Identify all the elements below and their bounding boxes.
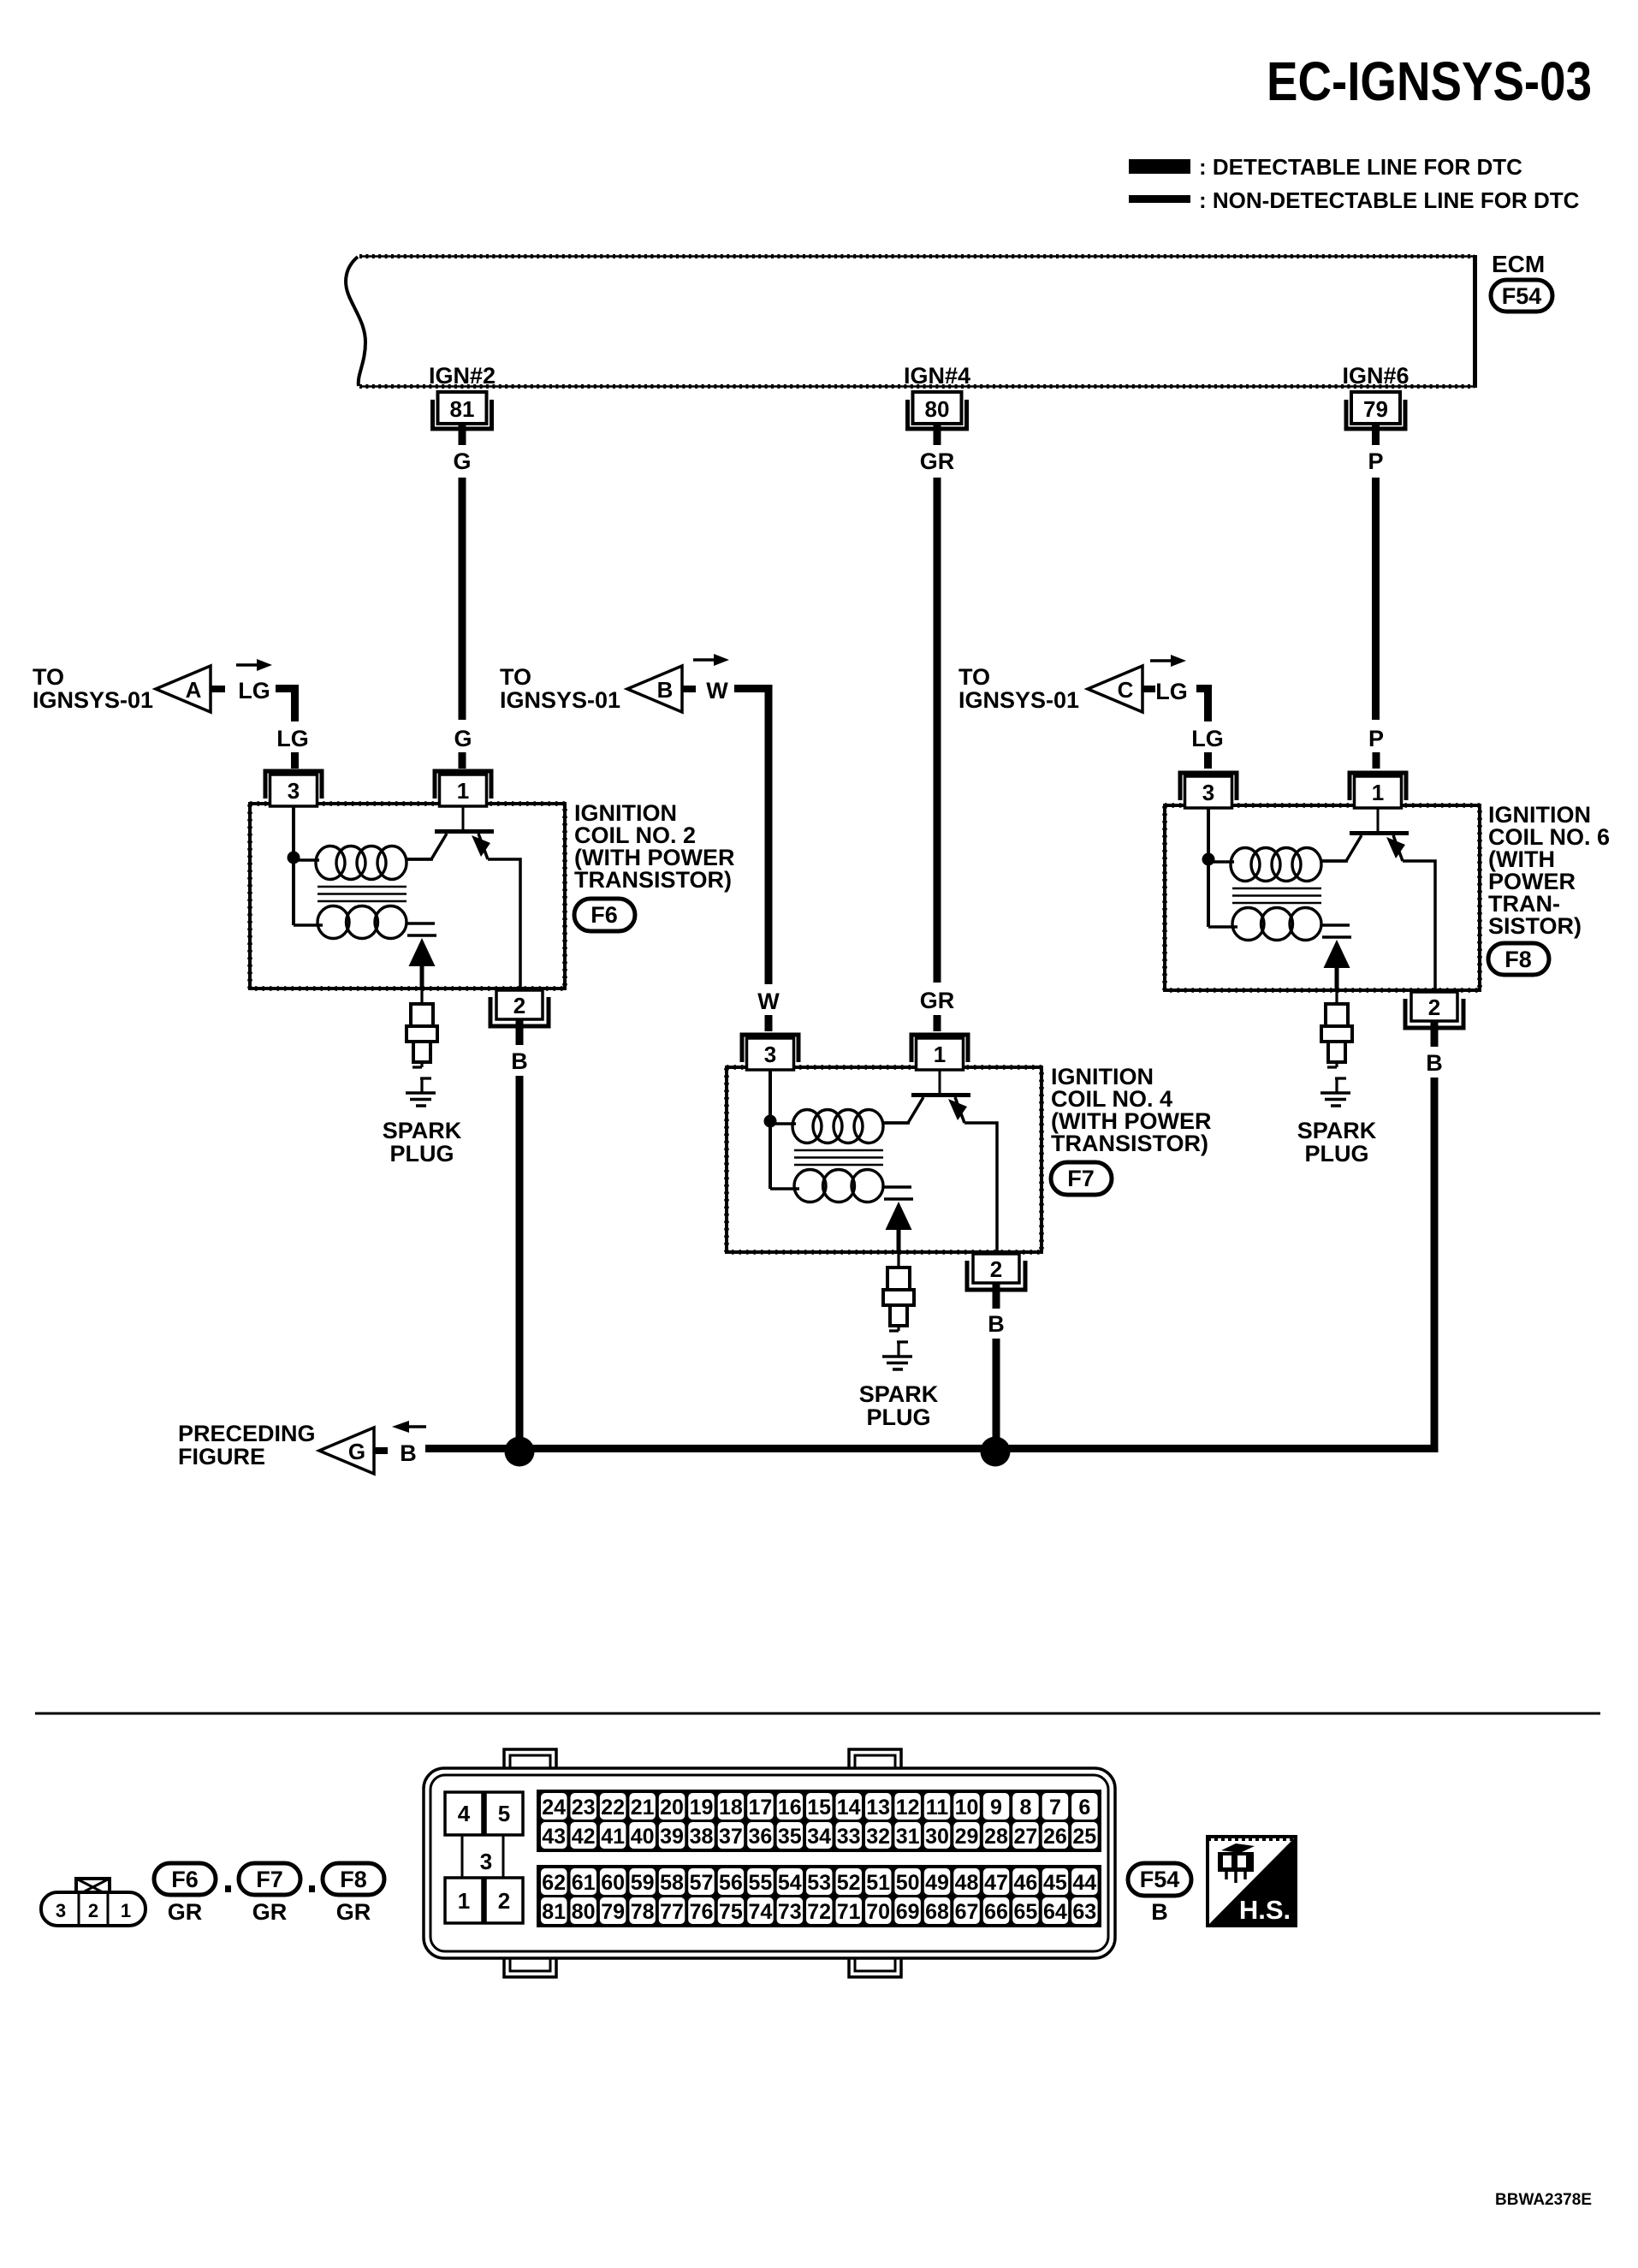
svg-text:F8: F8 [1504,947,1532,972]
svg-text:19: 19 [690,1796,714,1820]
svg-text:49: 49 [925,1871,949,1895]
svg-text:50: 50 [896,1871,920,1895]
wire GR from ECM pin 80 [920,448,955,1031]
svg-text:31: 31 [896,1825,920,1849]
svg-text:BBWA2378E: BBWA2378E [1495,2191,1592,2209]
svg-text:22: 22 [601,1796,625,1820]
coil 6 connector ref F8 [1488,943,1549,975]
svg-text:C: C [1118,677,1134,703]
coil 2 connector ref F6 [574,899,635,931]
ECM connector face outline [424,1749,1115,1977]
svg-text:2: 2 [88,1900,98,1921]
svg-text:58: 58 [660,1871,684,1895]
wire LG elbow to coil 6 pin 3 [1191,689,1224,769]
svg-text:21: 21 [631,1796,655,1820]
svg-text:17: 17 [748,1796,772,1820]
svg-text:B: B [657,677,674,703]
svg-text:LG: LG [276,726,309,751]
svg-text:57: 57 [690,1871,714,1895]
ECM connector pins 4,5,3,1,2 [445,1792,523,1923]
coil 4 connector ref F7 [1051,1162,1112,1195]
svg-text:F7: F7 [256,1867,283,1892]
svg-text:1: 1 [457,778,469,804]
svg-text:1: 1 [121,1900,131,1921]
svg-text:SPARK: SPARK [383,1118,462,1143]
coil 4 internal wire from pin 3 [764,1069,777,1189]
coil 6 internal wire from pin 3 [1202,807,1215,927]
title EC-IGNSYS-03 [1267,50,1592,112]
svg-text:71: 71 [837,1900,861,1924]
svg-text:GR: GR [252,1899,288,1925]
svg-text:13: 13 [866,1796,890,1820]
svg-text:PLUG: PLUG [1304,1141,1368,1167]
connector ref F54 (bottom) [1128,1863,1191,1925]
svg-text:47: 47 [984,1871,1008,1895]
wire B from coil 2 pin 2 [511,1048,528,1447]
svg-text:GR: GR [168,1899,203,1925]
svg-text:IGN#2: IGN#2 [429,363,496,389]
ground symbol for spark plug 2 [406,1093,436,1106]
svg-text:2: 2 [498,1888,510,1914]
ECM connector ref F54 [1491,280,1552,312]
coil 6 description label [1488,802,1610,939]
spark plug for coil 2 [407,989,437,1093]
coil 4 pin 2 terminal [967,1254,1025,1309]
coil 4 high-tension gap [883,1187,913,1254]
junction node under coil 2 [505,1437,535,1467]
svg-text:43: 43 [542,1825,566,1849]
svg-text:3: 3 [480,1849,492,1874]
coil 2 pin 2 terminal [490,990,549,1045]
ground symbol for spark plug 4 [882,1357,912,1369]
ignition coil no. 2 box (F6) [250,804,565,989]
svg-text:45: 45 [1043,1871,1067,1895]
svg-text:2: 2 [990,1256,1002,1282]
svg-text:25: 25 [1072,1825,1096,1849]
svg-text:TRANSISTOR): TRANSISTOR) [574,867,732,893]
svg-text:53: 53 [807,1871,831,1895]
ECM pin terminal 81 (IGN#2) [429,363,496,445]
svg-text:80: 80 [925,396,950,422]
coil 4 secondary winding L2 [770,1170,883,1202]
svg-text:16: 16 [778,1796,802,1820]
svg-text:G: G [453,448,471,474]
svg-text:EC-IGNSYS-03: EC-IGNSYS-03 [1267,50,1592,112]
svg-text:36: 36 [748,1825,772,1849]
svg-text:ECM: ECM [1492,251,1545,277]
svg-text:PLUG: PLUG [389,1141,454,1167]
svg-text:65: 65 [1013,1900,1037,1924]
svg-text:75: 75 [719,1900,743,1924]
svg-text:68: 68 [925,1900,949,1924]
node B to IGNSYS-01 label [500,664,620,713]
svg-text:2: 2 [1428,994,1440,1020]
svg-text:40: 40 [631,1825,655,1849]
svg-text:IGN#4: IGN#4 [904,363,970,389]
ECM connector pin grid lower block [537,1865,1101,1927]
svg-text:64: 64 [1043,1900,1067,1924]
svg-text:70: 70 [866,1900,890,1924]
svg-text:78: 78 [631,1900,655,1924]
svg-text:34: 34 [807,1825,831,1849]
svg-text:6: 6 [1078,1796,1090,1820]
svg-text:10: 10 [955,1796,979,1820]
svg-text:3: 3 [764,1042,776,1067]
H.S. harness symbol [1208,1837,1296,1926]
svg-text:IGN#6: IGN#6 [1342,363,1409,389]
svg-text:81: 81 [450,396,475,422]
svg-text:61: 61 [572,1871,596,1895]
svg-text:: DETECTABLE LINE FOR DTC: : DETECTABLE LINE FOR DTC [1199,154,1522,180]
coil 2 pin 3 terminal [265,771,322,806]
svg-text:IGNSYS-01: IGNSYS-01 [958,687,1079,713]
node A triangle connector [156,659,272,712]
svg-text:1: 1 [458,1888,470,1914]
ECM connector pin grid upper block [537,1790,1101,1852]
figure code [1495,2191,1592,2209]
spark plug 2 label [383,1118,462,1167]
svg-text:FIGURE: FIGURE [178,1444,265,1469]
coil 4 description label [1051,1064,1211,1156]
svg-text:76: 76 [690,1900,714,1924]
svg-text:TO: TO [33,664,64,690]
coil 6 transformer core [1232,888,1321,903]
svg-text:GR: GR [920,988,955,1013]
coil 6 pin 3 terminal [1180,773,1237,808]
svg-text:B: B [511,1048,528,1074]
svg-text:F6: F6 [171,1867,199,1892]
coil 4 power transistor Q4 [882,1069,997,1252]
svg-text:60: 60 [601,1871,625,1895]
svg-text:74: 74 [748,1900,772,1924]
coil 6 high-tension gap [1321,925,1351,992]
svg-text:48: 48 [955,1871,979,1895]
coil 6 power transistor Q6 [1320,807,1435,990]
svg-text:GR: GR [920,448,955,474]
svg-text:62: 62 [542,1871,566,1895]
svg-text:33: 33 [837,1825,861,1849]
coil 2 secondary winding L2 [294,906,407,939]
svg-text:51: 51 [866,1871,890,1895]
svg-text:1: 1 [934,1042,946,1067]
svg-text:A: A [186,677,202,703]
svg-text:52: 52 [837,1871,861,1895]
wire B from coil 4 pin 2 [988,1311,1005,1447]
svg-text:3: 3 [56,1900,66,1921]
coil 2 pin 1 terminal [435,771,491,806]
svg-text:79: 79 [601,1900,625,1924]
svg-text:79: 79 [1363,396,1388,422]
svg-text:F8: F8 [340,1867,367,1892]
svg-text:42: 42 [572,1825,596,1849]
node C triangle connector [1088,655,1188,712]
wire B ground bus [425,1078,1434,1449]
svg-text:39: 39 [660,1825,684,1849]
ignition coil no. 6 box (F8) [1165,805,1480,990]
svg-text:PRECEDING: PRECEDING [178,1421,316,1446]
svg-text:26: 26 [1043,1825,1067,1849]
coil 4 transformer core [794,1150,883,1165]
coil 6 primary winding L1 [1208,848,1348,882]
ECM label [1492,251,1545,277]
coil harness connector face (3-2-1) [41,1879,145,1926]
svg-text:LG: LG [1191,726,1224,751]
svg-text:SPARK: SPARK [859,1381,939,1407]
svg-text:63: 63 [1072,1900,1096,1924]
svg-text:B: B [1151,1899,1168,1925]
coil 4 primary winding L1 [770,1110,910,1143]
svg-text:IGNSYS-01: IGNSYS-01 [500,687,620,713]
svg-text:44: 44 [1072,1871,1096,1895]
svg-text:72: 72 [807,1900,831,1924]
svg-text:P: P [1368,726,1384,751]
svg-text:54: 54 [778,1871,802,1895]
coil 4 pin 3 terminal [742,1035,798,1070]
svg-text:G: G [454,726,472,751]
svg-text:37: 37 [719,1825,743,1849]
svg-text:SPARK: SPARK [1297,1118,1377,1143]
separator dot [225,1885,231,1892]
spark plug 6 label [1297,1118,1377,1167]
coil 2 high-tension gap [407,923,436,990]
svg-text:66: 66 [984,1900,1008,1924]
coil 6 secondary winding L2 [1208,908,1321,941]
svg-text:38: 38 [690,1825,714,1849]
svg-text:W: W [706,678,728,704]
svg-text:55: 55 [748,1871,772,1895]
node C to IGNSYS-01 label [958,664,1079,713]
svg-text:W: W [757,989,780,1014]
legend non-detectable line text [1199,187,1580,213]
wire P from ECM pin 79 [1368,448,1384,769]
coil 2 primary winding L1 [294,846,433,880]
svg-text:F54: F54 [1140,1867,1180,1892]
ignition coil no. 4 box (F7) [727,1067,1042,1252]
svg-text:B: B [400,1440,417,1466]
ground symbol for spark plug 6 [1320,1093,1350,1106]
svg-text:3: 3 [288,778,300,804]
preceding figure label [178,1421,316,1469]
svg-text:32: 32 [866,1825,890,1849]
svg-text:TO: TO [958,664,990,690]
node A to IGNSYS-01 label [33,664,153,713]
svg-text:12: 12 [896,1796,920,1820]
coil 6 pin 2 terminal [1405,992,1463,1047]
svg-text:81: 81 [542,1900,566,1924]
svg-text:73: 73 [778,1900,802,1924]
ECM box U1 [346,255,1475,388]
svg-text:67: 67 [955,1900,979,1924]
svg-text:H.S.: H.S. [1239,1895,1291,1925]
svg-text:2: 2 [513,993,525,1018]
svg-text:59: 59 [631,1871,655,1895]
svg-text:LG: LG [1155,679,1188,704]
svg-text:9: 9 [990,1796,1002,1820]
svg-text:28: 28 [984,1825,1008,1849]
wire W elbow down to coil 4 pin 3 [734,689,780,1032]
svg-text:3: 3 [1202,780,1214,805]
wire LG elbow to coil 2 pin 3 [276,689,309,769]
legend non-detectable line swatch [1129,195,1190,203]
svg-text:23: 23 [572,1796,596,1820]
spark plug 4 label [859,1381,939,1430]
svg-text:GR: GR [336,1899,371,1925]
coil 2 internal wire from pin 3 [288,805,300,925]
svg-text:IGNSYS-01: IGNSYS-01 [33,687,153,713]
ECM pin terminal 80 (IGN#4) [904,363,970,445]
svg-text:11: 11 [926,1796,949,1820]
connector ref F8 (bottom) [323,1863,384,1925]
svg-text:27: 27 [1013,1825,1037,1849]
svg-text:5: 5 [498,1801,510,1826]
svg-text:30: 30 [925,1825,949,1849]
svg-text:69: 69 [896,1900,920,1924]
svg-text:: NON-DETECTABLE LINE FOR DTC: : NON-DETECTABLE LINE FOR DTC [1199,187,1580,213]
legend detectable line swatch [1129,159,1190,174]
svg-text:35: 35 [778,1825,802,1849]
svg-text:7: 7 [1049,1796,1061,1820]
connector ref F7 (bottom) [239,1863,300,1925]
svg-text:B: B [1426,1050,1443,1076]
svg-text:TRANSISTOR): TRANSISTOR) [1051,1131,1208,1156]
node G triangle connector [319,1421,426,1474]
svg-text:14: 14 [837,1796,861,1820]
svg-text:41: 41 [601,1825,625,1849]
spark plug for coil 4 [883,1252,914,1357]
node B triangle connector [627,654,729,712]
svg-text:F7: F7 [1067,1166,1095,1191]
svg-text:LG: LG [238,678,270,704]
svg-text:4: 4 [458,1801,471,1826]
junction node under coil 4 [981,1437,1011,1467]
wire G from ECM pin 81 [453,448,472,769]
separator dot [309,1885,315,1892]
svg-text:F6: F6 [591,902,618,928]
coil 2 power transistor Q2 [406,805,520,989]
coil 2 description label [574,800,734,893]
svg-text:P: P [1368,448,1383,474]
svg-text:G: G [348,1439,365,1464]
coil 2 transformer core [318,887,407,901]
svg-text:PLUG: PLUG [866,1404,930,1430]
svg-text:29: 29 [955,1825,979,1849]
svg-text:46: 46 [1013,1871,1037,1895]
svg-text:B: B [988,1311,1005,1337]
legend detectable line text [1199,154,1522,180]
svg-text:F54: F54 [1502,283,1542,309]
svg-text:TO: TO [500,664,531,690]
coil 6 pin 1 terminal [1350,773,1406,808]
separator line [35,1713,1600,1715]
ECM pin terminal 79 (IGN#6) [1342,363,1409,445]
svg-text:20: 20 [660,1796,684,1820]
svg-text:18: 18 [719,1796,743,1820]
spark plug for coil 6 [1321,989,1352,1093]
svg-text:80: 80 [572,1900,596,1924]
wire B from coil 6 pin 2 [1426,1050,1443,1076]
svg-text:8: 8 [1019,1796,1031,1820]
svg-text:56: 56 [719,1871,743,1895]
svg-text:24: 24 [542,1796,566,1820]
svg-text:15: 15 [807,1796,831,1820]
svg-text:SISTOR): SISTOR) [1488,913,1582,939]
coil 4 pin 1 terminal [911,1035,968,1070]
svg-text:1: 1 [1372,780,1384,805]
svg-text:77: 77 [660,1900,684,1924]
connector ref F6 (bottom) [154,1863,216,1925]
